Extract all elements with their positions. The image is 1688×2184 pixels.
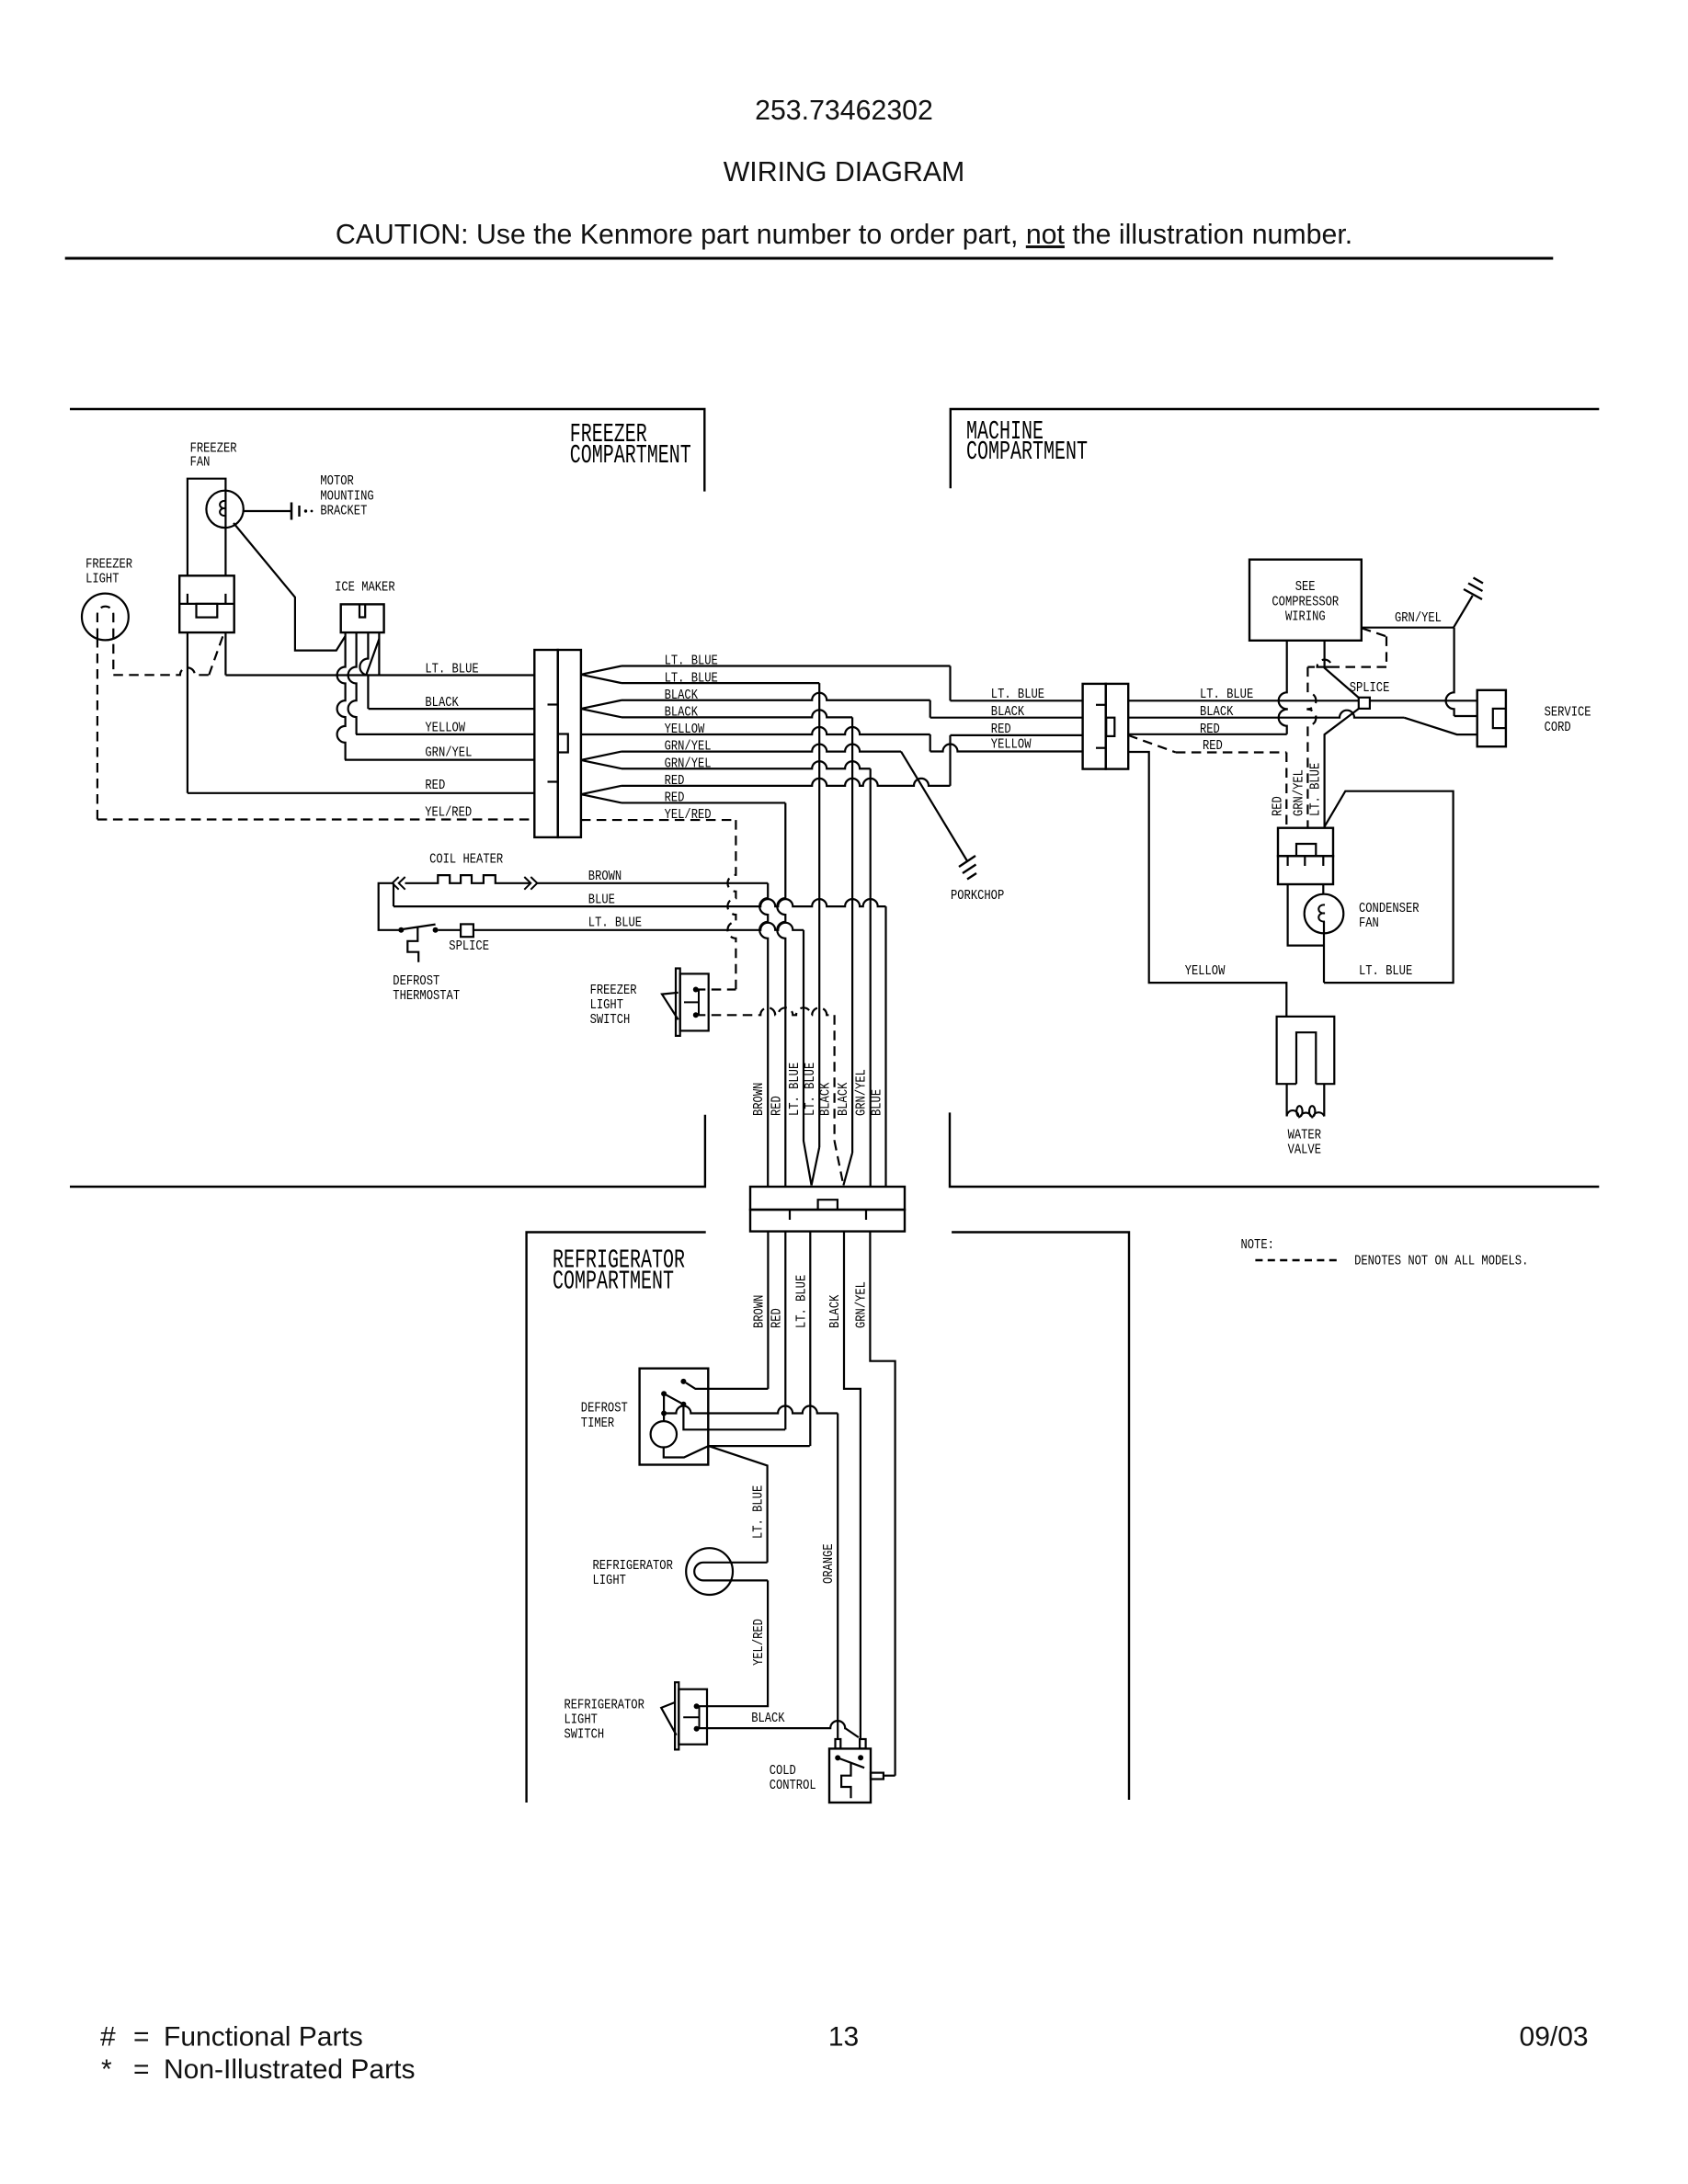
freezer fan motor circle bbox=[206, 491, 243, 528]
wire LT. BLUE k0 bbox=[622, 665, 951, 666]
svg-text:LT. BLUE: LT. BLUE bbox=[751, 1485, 767, 1539]
wire LT. BLUE freezer left bbox=[225, 674, 534, 676]
svg-text:BLACK: BLACK bbox=[665, 705, 698, 721]
wire RED machine solid bbox=[1128, 734, 1287, 735]
wire BLACK below connector bbox=[844, 1232, 861, 1739]
svg-text:LT. BLUE: LT. BLUE bbox=[665, 670, 718, 686]
wire YELLOW k4 bbox=[581, 727, 930, 734]
svg-text:DEFROST: DEFROST bbox=[393, 973, 439, 989]
svg-text:13: 13 bbox=[828, 2022, 859, 2053]
svg-text:BLACK: BLACK bbox=[818, 1083, 834, 1116]
machine compartment top boundary bbox=[951, 409, 1600, 488]
pennant BLACK pair bbox=[581, 700, 622, 718]
cold control pin left bbox=[836, 1739, 841, 1748]
freezer light switch body bbox=[680, 973, 709, 1030]
freezer light circle bbox=[82, 594, 129, 641]
cold control pin right bbox=[860, 1739, 866, 1748]
freezer connector notch bbox=[558, 734, 568, 753]
wire BLACK machine bbox=[1128, 711, 1404, 718]
svg-text:VALVE: VALVE bbox=[1288, 1143, 1321, 1158]
svg-text:LIGHT: LIGHT bbox=[565, 1712, 598, 1727]
svg-text:SERVICE: SERVICE bbox=[1545, 705, 1591, 721]
wire BROWN below connector bbox=[767, 1232, 769, 1389]
freezer connector ticks bbox=[548, 703, 558, 705]
service cord body bbox=[1477, 690, 1506, 746]
ice maker notch bbox=[359, 604, 365, 617]
svg-text:YELLOW: YELLOW bbox=[1185, 963, 1226, 979]
svg-text:LIGHT: LIGHT bbox=[593, 1573, 626, 1588]
ice maker body bbox=[341, 604, 384, 632]
svg-text:Functional Parts: Functional Parts bbox=[164, 2022, 363, 2053]
wire LT. BLUE condenser loop bbox=[1324, 791, 1454, 983]
wire YEL/RED freezer left dashed bbox=[97, 818, 534, 820]
svg-text:LT. BLUE: LT. BLUE bbox=[991, 687, 1044, 702]
compressor ground symbol bbox=[1464, 589, 1482, 599]
refrigerator light circle bbox=[686, 1548, 733, 1595]
machine connector body bbox=[1083, 684, 1106, 769]
svg-text:WATER: WATER bbox=[1288, 1128, 1321, 1143]
refrigerator light switch body bbox=[679, 1689, 707, 1745]
defrost timer motor bottom wire bbox=[664, 1446, 709, 1457]
refrigerator connector notch bbox=[818, 1200, 838, 1210]
svg-text:BRACKET: BRACKET bbox=[320, 503, 367, 518]
refrigerator light switch contacts bbox=[694, 1703, 700, 1709]
freezer fan outline bbox=[188, 479, 226, 576]
wire GRN/YEL dashed compressor bbox=[1362, 628, 1386, 636]
wire compressor GRN/YEL to ground bbox=[1362, 627, 1454, 629]
cold control side pin bbox=[871, 1773, 884, 1780]
svg-text:Non-Illustrated Parts: Non-Illustrated Parts bbox=[164, 2054, 415, 2085]
wire LT. BLUE timer junction bbox=[709, 1446, 810, 1563]
svg-text:CONTROL: CONTROL bbox=[770, 1778, 816, 1793]
wire ice maker pin4 diagonal bbox=[366, 639, 379, 676]
svg-text:YEL/RED: YEL/RED bbox=[751, 1619, 767, 1666]
header rule bbox=[65, 257, 1554, 260]
svg-text:LT. BLUE: LT. BLUE bbox=[793, 1275, 809, 1328]
freezer light switch contacts bbox=[693, 987, 699, 993]
svg-text:BLACK: BLACK bbox=[836, 1083, 851, 1116]
svg-text:SPLICE: SPLICE bbox=[1350, 680, 1390, 696]
defrost timer terminal 2 wire bbox=[683, 1405, 785, 1430]
svg-text:WIRING DIAGRAM: WIRING DIAGRAM bbox=[724, 157, 965, 188]
wire BLUE coil heater bbox=[393, 883, 394, 906]
svg-text:RED: RED bbox=[665, 773, 685, 789]
svg-text:YELLOW: YELLOW bbox=[425, 721, 465, 736]
wire BLACK k3 down bbox=[622, 710, 852, 717]
wire LT. BLUE coil heater bbox=[439, 923, 804, 930]
wire GRN/YEL below connector bbox=[870, 1232, 895, 1776]
wire fan motor to ice maker bbox=[234, 523, 346, 651]
wire compressor stub to splice bbox=[1325, 641, 1359, 698]
svg-text:FREEZER: FREEZER bbox=[590, 983, 637, 998]
svg-text:RED: RED bbox=[991, 722, 1011, 737]
svg-text:BLACK: BLACK bbox=[991, 704, 1024, 720]
freezer compartment top boundary bbox=[70, 409, 704, 492]
svg-text:YELLOW: YELLOW bbox=[665, 722, 705, 737]
svg-text:LT. BLUE: LT. BLUE bbox=[803, 1063, 818, 1116]
svg-text:WIRING: WIRING bbox=[1285, 609, 1326, 625]
svg-text:YEL/RED: YEL/RED bbox=[665, 807, 712, 823]
svg-text:09/03: 09/03 bbox=[1520, 2022, 1589, 2053]
svg-text:GRN/YEL: GRN/YEL bbox=[425, 745, 472, 761]
freezer light filament dashed bbox=[97, 607, 113, 676]
svg-text:RED: RED bbox=[1203, 738, 1223, 754]
wire GRN/YEL freezer left bbox=[345, 758, 534, 760]
svg-text:GRN/YEL: GRN/YEL bbox=[1395, 610, 1442, 626]
wire condenser fan loop bbox=[1288, 884, 1324, 946]
svg-text:YELLOW: YELLOW bbox=[991, 737, 1032, 753]
wire ice maker pin4 vertical bbox=[378, 632, 380, 675]
wire GRN/YEL down to service cord bbox=[1446, 628, 1454, 716]
svg-text:BLACK: BLACK bbox=[827, 1295, 843, 1328]
svg-text:BLUE: BLUE bbox=[588, 893, 615, 908]
relay connector notch bbox=[1296, 844, 1316, 856]
svg-text:FREEZER: FREEZER bbox=[86, 557, 132, 573]
condenser fan coil bbox=[1318, 904, 1325, 921]
freezer light switch plate bbox=[676, 969, 680, 1036]
svg-text:CORD: CORD bbox=[1545, 720, 1571, 735]
pennant GRN/YEL pair bbox=[581, 752, 622, 769]
svg-text:RED: RED bbox=[769, 1308, 784, 1328]
wire RED k7 bbox=[622, 779, 951, 786]
svg-text:CONDENSER: CONDENSER bbox=[1359, 901, 1420, 916]
svg-text:COLD: COLD bbox=[770, 1763, 796, 1779]
freezer connector body bbox=[534, 650, 557, 837]
svg-text:FAN: FAN bbox=[190, 455, 211, 471]
svg-text:RED: RED bbox=[1200, 722, 1220, 737]
wire freezer switch bottom dashed bbox=[696, 1007, 835, 1015]
svg-text:*: * bbox=[101, 2054, 112, 2085]
splice square freezer bbox=[461, 924, 473, 937]
wire RED machine dashed bbox=[1128, 735, 1176, 753]
wire freezer light dashed down bbox=[97, 638, 98, 820]
svg-text:GRN/YEL: GRN/YEL bbox=[665, 739, 712, 755]
svg-text:MOTOR: MOTOR bbox=[320, 473, 353, 489]
wire fan to bracket bbox=[244, 510, 291, 512]
motor mounting bracket symbol bbox=[291, 503, 293, 520]
wire splice to LT. BLUE down bbox=[1325, 709, 1359, 828]
cold control capillary bbox=[841, 1763, 850, 1799]
wire YELLOW freezer left bbox=[356, 734, 534, 735]
svg-text:BLACK: BLACK bbox=[1200, 704, 1233, 720]
svg-text:ORANGE: ORANGE bbox=[821, 1543, 837, 1584]
svg-text:GRN/YEL: GRN/YEL bbox=[854, 1069, 870, 1116]
svg-text:GRN/YEL: GRN/YEL bbox=[853, 1281, 869, 1328]
svg-text:SEE: SEE bbox=[1295, 579, 1316, 595]
svg-text:NOTE:: NOTE: bbox=[1241, 1237, 1274, 1253]
svg-text:SPLICE: SPLICE bbox=[449, 938, 489, 954]
svg-text:COMPRESSOR: COMPRESSOR bbox=[1272, 595, 1339, 610]
refrigerator connector body bbox=[750, 1187, 905, 1210]
svg-text:GRN/YEL: GRN/YEL bbox=[1291, 769, 1306, 816]
svg-text:BROWN: BROWN bbox=[751, 1295, 767, 1328]
wire LT. BLUE k1 down bbox=[622, 682, 819, 684]
svg-text:LT. BLUE: LT. BLUE bbox=[1200, 687, 1253, 702]
see compressor wiring box bbox=[1249, 560, 1362, 641]
relay connector ticks bbox=[1286, 856, 1288, 866]
svg-text:LT. BLUE: LT. BLUE bbox=[588, 916, 642, 931]
wire YEL/RED k9 dashed bbox=[581, 819, 736, 821]
defrost timer terminal 3 wire bbox=[661, 1411, 667, 1416]
svg-text:BLACK: BLACK bbox=[751, 1711, 784, 1726]
svg-text:LT. BLUE: LT. BLUE bbox=[787, 1063, 803, 1116]
water valve coil bbox=[1285, 1084, 1287, 1116]
cold control body bbox=[829, 1748, 871, 1803]
svg-text:TIMER: TIMER bbox=[581, 1416, 614, 1431]
wire fan connector left pin to RED bbox=[187, 632, 188, 793]
pennant LT. BLUE pair bbox=[581, 666, 622, 684]
splice square machine bbox=[1359, 698, 1370, 709]
refrigerator light filament bbox=[694, 1563, 768, 1581]
wire freezer switch top dashed bbox=[696, 988, 736, 990]
svg-text:LT. BLUE: LT. BLUE bbox=[665, 654, 718, 669]
wire freezer light dashed to fan connector bbox=[113, 667, 209, 675]
svg-text:MOUNTING: MOUNTING bbox=[320, 488, 373, 504]
wire RED freezer left bbox=[188, 792, 534, 794]
svg-text:LIGHT: LIGHT bbox=[86, 572, 119, 587]
wire GRN/YEL k5 to porkchop bbox=[622, 745, 901, 752]
svg-text:THERMOSTAT: THERMOSTAT bbox=[393, 988, 460, 1004]
svg-text:BROWN: BROWN bbox=[751, 1083, 767, 1116]
svg-text:ICE MAKER: ICE MAKER bbox=[335, 580, 395, 596]
svg-text:COMPARTMENT: COMPARTMENT bbox=[966, 437, 1088, 467]
svg-text:GRN/YEL: GRN/YEL bbox=[665, 756, 712, 771]
svg-text:LT. BLUE: LT. BLUE bbox=[1359, 963, 1412, 979]
relay connector body bbox=[1278, 828, 1333, 857]
wire BLACK k2 bbox=[622, 693, 930, 700]
wire fan connector right pin to LT. BLUE bbox=[224, 632, 226, 675]
pennant tip BLACK refrigerator bbox=[833, 1015, 835, 1141]
wire LT. BLUE splice to service cord bbox=[1370, 700, 1477, 701]
svg-text:REFRIGERATOR: REFRIGERATOR bbox=[565, 1697, 644, 1712]
defrost timer motor bbox=[651, 1421, 677, 1447]
wire GRN/YEL k6 down bbox=[622, 761, 871, 768]
freezer light switch actuator bbox=[662, 993, 679, 1020]
svg-text:REFRIGERATOR: REFRIGERATOR bbox=[593, 1558, 673, 1574]
wire YELLOW machine to water valve bbox=[1128, 752, 1286, 1017]
svg-text:LT. BLUE: LT. BLUE bbox=[425, 662, 478, 677]
svg-text:253.73462302: 253.73462302 bbox=[755, 96, 933, 126]
svg-text:CAUTION: Use the Kenmore part: CAUTION: Use the Kenmore part number to … bbox=[336, 220, 1352, 250]
machine compartment bottom boundary bbox=[950, 1112, 1599, 1187]
defrost timer terminal 1 bbox=[680, 1379, 686, 1384]
freezer fan connector ticks bbox=[187, 594, 188, 604]
refrigerator light switch actuator bbox=[661, 1702, 677, 1735]
machine connector notch bbox=[1106, 718, 1114, 736]
svg-text:BLACK: BLACK bbox=[665, 688, 698, 703]
wire ice maker pin2 to YELLOW bbox=[348, 632, 357, 734]
refrigerator connector ticks bbox=[789, 1210, 791, 1220]
svg-text:SWITCH: SWITCH bbox=[565, 1727, 605, 1743]
wire BLACK switch to cold control bbox=[699, 1721, 845, 1728]
svg-text:DEFROST: DEFROST bbox=[581, 1401, 628, 1416]
svg-text:BLACK: BLACK bbox=[425, 695, 458, 711]
wire BLACK freezer left bbox=[369, 708, 535, 710]
svg-text:PORKCHOP: PORKCHOP bbox=[951, 888, 1004, 904]
wire LT. BLUE below connector bbox=[809, 1232, 811, 1447]
svg-text:#: # bbox=[100, 2022, 116, 2053]
svg-text:=: = bbox=[133, 2054, 150, 2085]
wire BROWN coil heater bbox=[537, 882, 768, 884]
defrost timer pivot and arm bbox=[661, 1391, 667, 1396]
pennant tip LT. BLUE refrigerator bbox=[804, 930, 812, 1186]
note dashed sample bbox=[1255, 1259, 1341, 1261]
svg-text:LIGHT: LIGHT bbox=[590, 997, 623, 1013]
svg-text:RED: RED bbox=[665, 791, 685, 806]
pennant RED pair bbox=[581, 786, 622, 803]
svg-text:COMPARTMENT: COMPARTMENT bbox=[553, 1267, 674, 1297]
wire YEL/RED to switch bbox=[699, 1580, 768, 1706]
defrost thermostat capillary bbox=[407, 927, 418, 962]
svg-text:COIL HEATER: COIL HEATER bbox=[429, 852, 503, 868]
freezer compartment bottom boundary bbox=[70, 1115, 705, 1187]
refrigerator compartment boundary left bbox=[527, 1233, 706, 1803]
wire ice maker pin3 to BLACK bbox=[359, 632, 368, 709]
svg-text:RED: RED bbox=[1271, 796, 1286, 816]
svg-text:FAN: FAN bbox=[1359, 916, 1379, 931]
machine connector ticks bbox=[1096, 704, 1106, 706]
wire RED below connector bbox=[784, 1232, 786, 1430]
svg-text:YEL/RED: YEL/RED bbox=[425, 805, 472, 821]
svg-text:RED: RED bbox=[425, 778, 445, 793]
defrost thermostat contacts bbox=[398, 927, 404, 933]
defrost timer box bbox=[640, 1369, 709, 1465]
svg-text:DENOTES NOT ON ALL MODELS.: DENOTES NOT ON ALL MODELS. bbox=[1354, 1254, 1528, 1269]
svg-text:BROWN: BROWN bbox=[588, 869, 622, 884]
refrigerator light switch plate bbox=[675, 1682, 679, 1749]
condenser fan circle bbox=[1305, 894, 1344, 934]
wire YEL/RED dashed down to switch bbox=[727, 820, 736, 989]
svg-text:=: = bbox=[133, 2022, 150, 2053]
freezer fan connector body bbox=[179, 575, 234, 632]
cold control contacts bbox=[835, 1755, 840, 1760]
wire RED k8 down bbox=[622, 802, 785, 803]
service cord inner bbox=[1493, 709, 1506, 728]
porkchop ground symbol bbox=[959, 856, 975, 867]
svg-text:RED: RED bbox=[769, 1096, 784, 1116]
wire LT. BLUE machine to splice bbox=[1128, 700, 1359, 701]
svg-text:SWITCH: SWITCH bbox=[590, 1012, 631, 1028]
svg-text:COMPARTMENT: COMPARTMENT bbox=[570, 440, 691, 471]
water valve body bbox=[1277, 1017, 1335, 1084]
wire ice maker pin1 to GRN/YEL bbox=[337, 632, 346, 760]
svg-text:LT. BLUE: LT. BLUE bbox=[1308, 763, 1324, 816]
coil heater element bbox=[379, 883, 399, 930]
freezer fan motor coil bbox=[220, 501, 225, 516]
refrigerator compartment boundary right bbox=[952, 1233, 1129, 1801]
svg-text:BLUE: BLUE bbox=[870, 1089, 885, 1116]
freezer fan connector notch bbox=[197, 604, 218, 618]
